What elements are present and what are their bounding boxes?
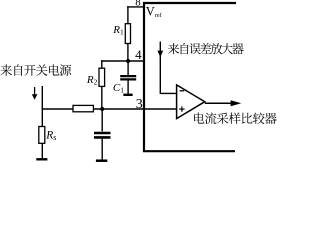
svg-text:3: 3 [136,97,143,112]
svg-text:8: 8 [135,0,141,9]
svg-text:4: 4 [135,47,142,62]
